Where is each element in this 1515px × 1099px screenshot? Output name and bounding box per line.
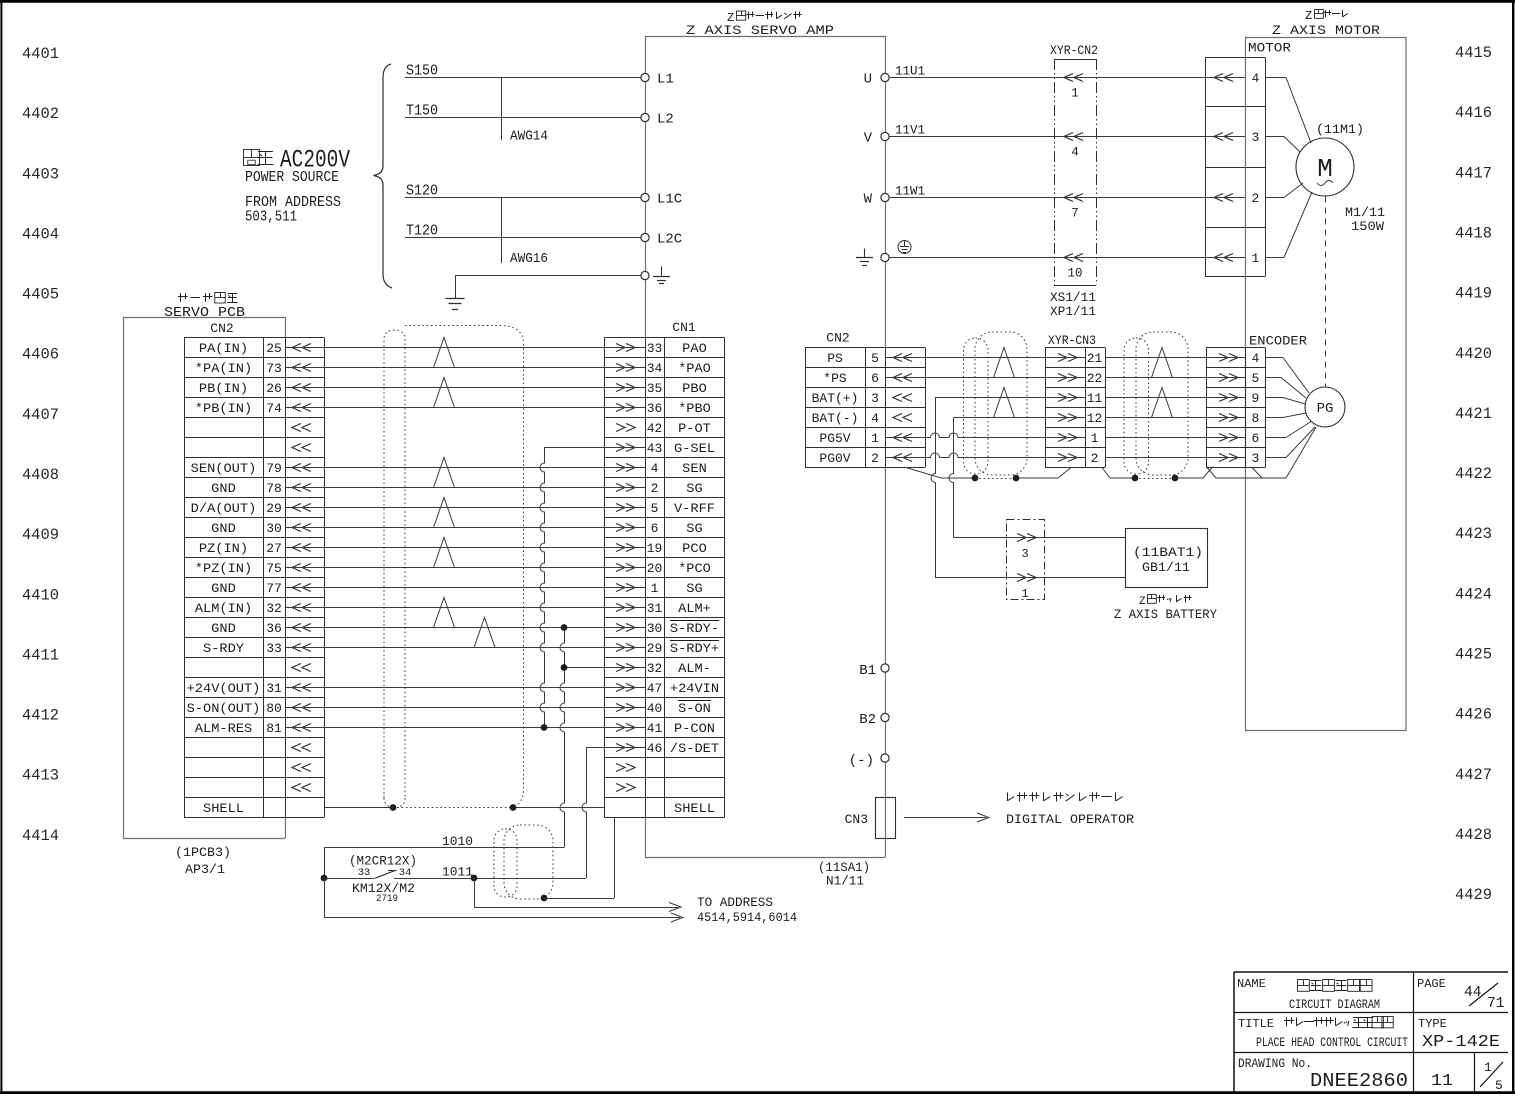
terminal W on servo amp	[864, 192, 890, 208]
twisted pair symbol harness at y527.5	[434, 498, 455, 528]
wire G-SEL stub to junction column	[544, 447, 645, 449]
svg-text:DRAWING No.: DRAWING No.	[1238, 1056, 1312, 1071]
connector CN2 pin 1 PG5V	[819, 431, 912, 446]
svg-text:4423: 4423	[1455, 525, 1492, 543]
svg-text:CIRCUIT DIAGRAM: CIRCUIT DIAGRAM	[1289, 997, 1380, 1012]
svg-text:ALM(IN): ALM(IN)	[195, 601, 252, 616]
svg-text:4411: 4411	[22, 646, 59, 664]
svg-text:T120: T120	[406, 223, 438, 240]
CN1 row 7 pin 4 SEN	[616, 461, 707, 476]
terminal PE (power input earth)	[641, 267, 670, 284]
svg-text:33: 33	[647, 341, 663, 356]
svg-text:30: 30	[266, 521, 282, 536]
label POWER SOURCE	[245, 169, 339, 186]
svg-text:4406: 4406	[22, 346, 59, 364]
wire PS to XYR-CN3 pin 21	[885, 357, 1086, 359]
svg-text:32: 32	[266, 601, 282, 616]
svg-text:2: 2	[651, 481, 659, 496]
CN2 pcb row 21 nc pin -	[292, 744, 311, 752]
svg-text:PAGE: PAGE	[1417, 977, 1446, 991]
wire encoder pin 3 to PG	[1265, 427, 1315, 458]
svg-text:12: 12	[1087, 411, 1103, 426]
CN1 row 3 pin 35 PBO	[616, 381, 707, 396]
svg-text:POWER SOURCE: POWER SOURCE	[245, 169, 339, 186]
svg-text:N1/11: N1/11	[826, 874, 864, 889]
twisted pair symbol harness at y487.5	[434, 458, 455, 488]
svg-text:35: 35	[647, 381, 663, 396]
CN1 row 10 pin 6 SG	[616, 521, 703, 536]
svg-text:29: 29	[266, 501, 282, 516]
svg-text:11: 11	[1087, 391, 1103, 406]
connector CN2 pin 3 BAT(+)	[812, 391, 912, 406]
CN1 row 24 pin - SHELL	[674, 801, 715, 816]
svg-text:31: 31	[266, 681, 282, 696]
svg-text:Z AXIS BATTERY: Z AXIS BATTERY	[1114, 608, 1217, 622]
title block frame	[1234, 972, 1508, 1092]
shielded cable symbol net 1010/1011	[494, 825, 553, 899]
twisted pair symbol harness at y627.5	[434, 598, 455, 628]
svg-text:4429: 4429	[1455, 886, 1492, 904]
svg-text:11U1: 11U1	[895, 64, 925, 79]
svg-text:L1C: L1C	[657, 192, 682, 208]
svg-text:AWG14: AWG14	[510, 129, 548, 145]
motor connector pin 2	[1214, 191, 1259, 206]
svg-text:3: 3	[1021, 547, 1028, 561]
svg-text:40: 40	[647, 701, 663, 716]
shielded cable symbol XYR-CN3 to encoder	[1124, 332, 1188, 475]
encoder connector table	[1206, 348, 1266, 468]
CN1 row 13 pin 1 SG	[616, 581, 703, 596]
wire ALM- stub from junction	[564, 667, 645, 669]
svg-text:5: 5	[871, 351, 879, 366]
junction column S-RDY-/ALM- net 1010	[560, 624, 567, 847]
svg-text:4407: 4407	[22, 406, 59, 424]
svg-text:4402: 4402	[22, 105, 59, 123]
svg-text:4426: 4426	[1455, 706, 1492, 724]
svg-text:4409: 4409	[22, 526, 59, 544]
wire harness row 19 S-ON(OUT) to S-ON	[285, 707, 645, 709]
svg-text:4419: 4419	[1455, 285, 1492, 303]
svg-text:ALM-: ALM-	[678, 661, 711, 676]
CN1 row 18 pin 47 +24VIN	[616, 681, 719, 696]
svg-text:4418: 4418	[1455, 224, 1492, 242]
wire net 1010	[324, 834, 564, 878]
svg-text:P-OT: P-OT	[678, 421, 711, 436]
shield drain wire encoder side with junctions	[1102, 467, 1213, 482]
svg-text:6: 6	[871, 371, 879, 386]
wire motor pin 4 to M1	[1265, 78, 1311, 144]
CN1 row 15 pin 30 S-RDY-	[616, 621, 719, 637]
label servo pcb JP サーボ基板	[178, 293, 238, 304]
svg-text:CN1: CN1	[672, 320, 696, 335]
motor connector pin 1	[1214, 251, 1259, 266]
label Z axis battery JP Z軸バッテリ	[1139, 595, 1192, 609]
connector CN2 (servo pcb) table grid	[184, 338, 325, 818]
svg-text:S-RDY-: S-RDY-	[670, 621, 719, 636]
svg-text:*PZ(IN): *PZ(IN)	[195, 561, 252, 576]
svg-text:GND: GND	[211, 481, 236, 496]
right margin line numbers 4415-4429	[1455, 44, 1492, 904]
svg-text:(1PCB3): (1PCB3)	[175, 845, 231, 860]
battery connector box	[1007, 520, 1045, 600]
wire harness row 8 GND to SG	[285, 487, 645, 489]
CN2 pcb row 17 nc pin -	[292, 664, 311, 672]
svg-text:PLACE HEAD CONTROL CIRCUIT: PLACE HEAD CONTROL CIRCUIT	[1256, 1035, 1408, 1050]
svg-text:41: 41	[647, 721, 663, 736]
twisted pair symbol harness at y367.5	[434, 338, 455, 368]
svg-text:3: 3	[1251, 451, 1259, 466]
svg-text:(-): (-)	[849, 753, 874, 769]
wire /S-DET net 1011 riser	[582, 748, 645, 879]
svg-text:*PAO: *PAO	[678, 361, 711, 376]
CN1 row 20 pin 41 P-CON	[616, 721, 715, 736]
title block NAME field: 電気回路線図 CIRCUIT DIAGRAM	[1237, 977, 1380, 1012]
svg-text:CN2: CN2	[210, 321, 233, 336]
svg-text:4427: 4427	[1455, 766, 1492, 784]
svg-text:4416: 4416	[1455, 104, 1492, 122]
twisted pair symbol harness at y647.5	[474, 618, 495, 648]
wire encoder pin 5 to PG	[1265, 378, 1306, 399]
wire encoder cable shield to PG	[1207, 427, 1316, 478]
svg-text:M: M	[1317, 154, 1333, 184]
CN2 pcb row 19 S-ON(OUT) pin 80	[187, 701, 311, 716]
CN2 pcb row 20 ALM-RES pin 81	[195, 721, 311, 736]
battery GB1 (11BAT1) box	[1126, 529, 1208, 588]
svg-text:4410: 4410	[22, 586, 59, 604]
CN1 row 23 pin - nc	[616, 784, 635, 792]
connector XYR-CN3 pin 2	[1058, 451, 1098, 466]
svg-text:PG5V: PG5V	[819, 431, 850, 446]
title block TYPE XP-142E	[1418, 1017, 1500, 1052]
svg-text:10: 10	[1067, 267, 1082, 281]
wire harness row 20 ALM-RES to P-CON	[285, 727, 645, 729]
wire S150 (L1 feed)	[405, 63, 641, 80]
svg-text:S120: S120	[406, 183, 438, 200]
svg-text:21: 21	[1087, 351, 1103, 366]
svg-text:4412: 4412	[22, 707, 59, 725]
CN2 pcb row 10 GND pin 30	[211, 521, 311, 536]
svg-text:AWG16: AWG16	[510, 251, 548, 267]
svg-text:L2: L2	[657, 112, 674, 128]
battery connector pin 1	[1017, 574, 1036, 602]
CN2 pcb row 4 *PB(IN) pin 74	[195, 401, 311, 416]
wire harness row 7 SEN(OUT) to SEN	[285, 467, 645, 469]
twisted pair symbol encoder BAT pair	[1152, 388, 1173, 418]
svg-text:M1/11: M1/11	[1345, 205, 1385, 220]
wire encoder pin 6 to PG	[1265, 422, 1311, 438]
svg-text:80: 80	[266, 701, 282, 716]
wire battery+ to XYR-CN3 pin 11	[935, 397, 1086, 399]
wire harness row 2 *PA(IN) to *PAO	[285, 367, 645, 369]
wire battery plus vertical	[931, 398, 1125, 578]
svg-text:26: 26	[266, 381, 282, 396]
CN2 pcb row 2 *PA(IN) pin 73	[195, 361, 311, 376]
svg-text:/S-DET: /S-DET	[670, 741, 719, 756]
shield drain to CN1 shell	[541, 818, 615, 902]
CN2 pcb row 24 SHELL pin -	[203, 801, 244, 816]
svg-text:Z: Z	[1305, 9, 1312, 23]
svg-text:2719: 2719	[376, 894, 398, 905]
svg-text:SERVO PCB: SERVO PCB	[164, 305, 245, 321]
svg-text:DNEE2860: DNEE2860	[1310, 1070, 1408, 1092]
svg-text:1011: 1011	[442, 865, 473, 880]
wire harness row 11 PZ(IN) to PCO	[285, 547, 645, 549]
svg-text:4: 4	[871, 411, 879, 426]
wire net 1011	[321, 865, 586, 882]
svg-text:B1: B1	[859, 663, 876, 679]
svg-text:503,511: 503,511	[245, 209, 297, 226]
svg-text:XS1/11: XS1/11	[1050, 290, 1096, 305]
svg-text:4405: 4405	[22, 286, 59, 304]
svg-text:22: 22	[1087, 371, 1103, 386]
terminal L2	[641, 112, 674, 128]
svg-text:8: 8	[1251, 411, 1259, 426]
svg-text:4420: 4420	[1455, 345, 1492, 363]
svg-text:1: 1	[1021, 587, 1028, 601]
svg-text:W: W	[864, 192, 873, 208]
svg-text:S150: S150	[406, 63, 438, 80]
svg-text:PS: PS	[827, 351, 843, 366]
connector XYR-CN2 pin 7 with arrow	[1064, 194, 1083, 221]
terminal V on servo amp	[864, 131, 890, 147]
connector CN1 table grid	[605, 338, 725, 818]
svg-text:SHELL: SHELL	[674, 801, 715, 816]
junction column G-SEL/P-CON	[540, 448, 547, 731]
label Z AXIS MOTOR	[1272, 23, 1380, 38]
connector CN3 digital operator port	[845, 798, 896, 839]
CN1 row 17 pin 32 ALM-	[616, 661, 711, 676]
wire harness row 15 GND to S-RDY-	[285, 627, 645, 629]
wire 1011 to address bus	[474, 878, 681, 912]
svg-text:P-CON: P-CON	[674, 721, 715, 736]
svg-text:SG: SG	[686, 581, 702, 596]
wire PG5V to XYR-CN3 pin 1	[885, 433, 1086, 438]
svg-text:GB1/11: GB1/11	[1142, 560, 1190, 575]
svg-text:PA(IN): PA(IN)	[199, 341, 248, 356]
connector CN2 pin 6 *PS	[823, 371, 912, 386]
svg-text:33: 33	[266, 641, 282, 656]
svg-text:46: 46	[647, 741, 663, 756]
svg-text:20: 20	[647, 561, 663, 576]
svg-text:SEN(OUT): SEN(OUT)	[191, 461, 257, 476]
connector CN2 pin 2 PG0V	[819, 451, 912, 466]
svg-text:1010: 1010	[442, 834, 473, 849]
terminal L2C	[641, 232, 682, 248]
title block PAGE 44/71	[1417, 977, 1504, 1012]
label DIGITAL OPERATOR	[1006, 812, 1134, 827]
svg-text:V: V	[864, 131, 873, 147]
svg-text:4403: 4403	[22, 165, 59, 183]
svg-text:ALM+: ALM+	[678, 601, 711, 616]
CN2 pcb row 11 PZ(IN) pin 27	[199, 541, 311, 556]
svg-text:Z AXIS MOTOR: Z AXIS MOTOR	[1272, 23, 1380, 38]
wire XYR-CN3 pin 2 to encoder 3	[1105, 457, 1246, 459]
CN2 pcb row 5 nc pin -	[292, 424, 311, 432]
wire motor phase W net 11W1	[889, 184, 1246, 199]
svg-text:4: 4	[1071, 146, 1079, 160]
CN2 pcb row 14 ALM(IN) pin 32	[195, 601, 311, 616]
connector XYR-CN2 pin 10 with arrow	[1064, 254, 1083, 281]
svg-text:1: 1	[1251, 251, 1259, 266]
terminal L1	[641, 72, 674, 88]
CN2 pcb row 22 nc pin -	[292, 764, 311, 772]
svg-text:31: 31	[647, 601, 663, 616]
svg-text:PBO: PBO	[682, 381, 707, 396]
svg-text:2: 2	[1251, 191, 1259, 206]
label Z axis motor JP Z軸モータ	[1305, 9, 1348, 23]
battery connector pin 3	[1017, 534, 1036, 562]
title block TITLE field: プレースヘッド制御回路 PLACE HEAD CONTROL CIRCUIT	[1238, 1017, 1408, 1051]
wire battery- to XYR-CN3 pin 12	[954, 417, 1086, 419]
svg-text:150W: 150W	[1351, 219, 1384, 234]
motor unit box outline	[1246, 38, 1407, 731]
motor connector table (pins 4 3 2 1)	[1205, 58, 1266, 277]
svg-text:4: 4	[1251, 71, 1259, 86]
CN2 pcb row 6 nc pin -	[292, 444, 311, 452]
svg-text:G-SEL: G-SEL	[674, 441, 715, 456]
label SERVO PCB	[164, 305, 245, 321]
connector XYR-CN3 pin 12	[1058, 411, 1102, 426]
svg-text:1: 1	[651, 581, 659, 596]
svg-text:1: 1	[1484, 1060, 1492, 1075]
connector XYR-CN2 outline	[1054, 59, 1097, 286]
twisted pair symbol BAT pair	[994, 388, 1015, 418]
CN2 pcb row 8 GND pin 78	[211, 481, 311, 496]
CN1 row 4 pin 36 *PBO	[616, 401, 711, 416]
connector XYR-CN3 label	[1048, 334, 1096, 348]
CN1 row 2 pin 34 *PAO	[616, 361, 711, 376]
CN2 pcb row 18 +24V(OUT) pin 31	[187, 681, 311, 696]
connector XYR-CN2 pin 1 with arrow	[1064, 74, 1083, 101]
CN1 row 1 pin 33 PAO	[616, 341, 707, 356]
CN1 row 22 pin - nc	[616, 764, 635, 772]
svg-text:1: 1	[1071, 87, 1079, 101]
wire harness row 3 PB(IN) to PBO	[285, 387, 645, 389]
label FROM ADDRESS 503,511	[245, 194, 341, 226]
shielded cable symbol CN2 to XYR-CN3	[964, 332, 1028, 475]
CN1 row 8 pin 2 SG	[616, 481, 703, 496]
terminal earth on servo amp with ground symbol	[856, 249, 889, 266]
svg-text:CN3: CN3	[845, 812, 868, 827]
wire XYR-CN3 pin 11 to encoder 9	[1105, 397, 1246, 399]
svg-text:4425: 4425	[1455, 646, 1492, 664]
terminal (-)	[849, 753, 889, 769]
svg-text:4428: 4428	[1455, 826, 1492, 844]
motor M1 circle symbol (11M1)	[1296, 122, 1364, 196]
encoder PG circle symbol	[1305, 387, 1345, 427]
svg-text:BAT(+): BAT(+)	[812, 391, 859, 406]
wire motor pin 1 to M1	[1265, 192, 1312, 258]
svg-text:+24V(OUT): +24V(OUT)	[187, 681, 261, 696]
svg-text:L2C: L2C	[657, 232, 682, 248]
wire encoder pin 9 to PG	[1265, 398, 1305, 405]
svg-text:S-RDY+: S-RDY+	[670, 641, 719, 656]
CN2 pcb row 3 PB(IN) pin 26	[199, 381, 311, 396]
svg-text:GND: GND	[211, 581, 236, 596]
svg-text:33: 33	[358, 867, 371, 879]
svg-text:(11M1): (11M1)	[1316, 122, 1364, 137]
CN1 row 19 pin 40 S-ON	[616, 701, 711, 717]
encoder connector pin 8	[1219, 411, 1259, 426]
brace power source group	[374, 64, 393, 288]
wire harness row 13 GND to SG	[285, 587, 645, 589]
svg-text:*PBO: *PBO	[678, 401, 711, 416]
svg-text:XYR-CN2: XYR-CN2	[1050, 44, 1098, 58]
connector CN2 pin 5 PS	[827, 351, 912, 366]
svg-text:SHELL: SHELL	[203, 801, 244, 816]
wire XYR-CN3 pin 22 to encoder 5	[1105, 377, 1246, 379]
wire harness row 16 S-RDY to S-RDY+	[285, 647, 645, 649]
svg-text:4413: 4413	[22, 767, 59, 785]
svg-text:34: 34	[399, 867, 412, 879]
connector XYR-CN2 pin 4 with arrow	[1064, 133, 1083, 160]
svg-text:34: 34	[647, 361, 663, 376]
svg-text:27: 27	[266, 541, 282, 556]
svg-text:43: 43	[647, 441, 663, 456]
svg-text:4422: 4422	[1455, 465, 1492, 483]
CN2 pcb row 1 PA(IN) pin 25	[199, 341, 311, 356]
svg-text:6: 6	[651, 521, 659, 536]
svg-text:4514,5914,6014: 4514,5914,6014	[697, 910, 797, 925]
svg-text:PG: PG	[1317, 401, 1334, 417]
label MOTOR	[1248, 41, 1291, 56]
svg-text:PB(IN): PB(IN)	[199, 381, 248, 396]
svg-text:*PB(IN): *PB(IN)	[195, 401, 252, 416]
twisted pair symbol harness at y567.5	[434, 538, 455, 568]
dashed shaft link M1 to PG encoder	[1325, 197, 1327, 388]
label (1PCB3) AP3/1 designator	[175, 845, 231, 877]
connector XYR-CN3 pin 21	[1058, 351, 1102, 366]
svg-text:78: 78	[266, 481, 282, 496]
wire ground feed	[455, 276, 641, 299]
svg-text:4415: 4415	[1455, 44, 1492, 62]
svg-text:47: 47	[647, 681, 663, 696]
wire XYR-CN3 pin 1 to encoder 6	[1105, 437, 1246, 439]
svg-text:79: 79	[266, 461, 282, 476]
svg-text:XP-142E: XP-142E	[1422, 1033, 1500, 1052]
svg-text:XP1/11: XP1/11	[1050, 304, 1096, 319]
label TO ADDRESS 4514,5914,6014	[697, 895, 797, 925]
wire motor earth net	[889, 257, 1246, 259]
svg-text:*PA(IN): *PA(IN)	[195, 361, 252, 376]
svg-text:4: 4	[651, 461, 659, 476]
svg-text:AP3/1: AP3/1	[185, 862, 225, 877]
wire harness row 10 GND to SG	[285, 527, 645, 529]
svg-text:30: 30	[647, 621, 663, 636]
svg-text:4: 4	[1251, 351, 1259, 366]
wire XYR-CN3 pin 21 to encoder 4	[1105, 357, 1246, 359]
wire PG0V to XYR-CN3 pin 2	[885, 453, 1086, 458]
wire harness row 14 ALM(IN) to ALM+	[285, 607, 645, 609]
encoder connector pin 3	[1219, 451, 1259, 466]
svg-text:SG: SG	[686, 521, 702, 536]
svg-text:SEN: SEN	[682, 461, 707, 476]
svg-text:29: 29	[647, 641, 663, 656]
CN1 row 16 pin 29 S-RDY+	[616, 641, 719, 657]
CN1 row 6 pin 43 G-SEL	[616, 441, 715, 456]
svg-text:S-ON: S-ON	[678, 701, 711, 716]
svg-text:71: 71	[1487, 996, 1504, 1012]
cable gauge tick AWG16	[502, 198, 549, 268]
label (11SA1) N1/11 servo amp designator	[818, 860, 870, 889]
svg-text:3: 3	[871, 391, 879, 406]
label Z axis servo amp JP Z軸サーボアンプ	[727, 11, 802, 25]
arrow CN3 to digital operator	[904, 813, 989, 822]
wire encoder pin 8 to PG	[1265, 413, 1306, 418]
encoder connector pin 9	[1219, 391, 1259, 406]
CN2 pcb row 15 GND pin 36	[211, 621, 311, 636]
terminal B2	[859, 712, 889, 728]
